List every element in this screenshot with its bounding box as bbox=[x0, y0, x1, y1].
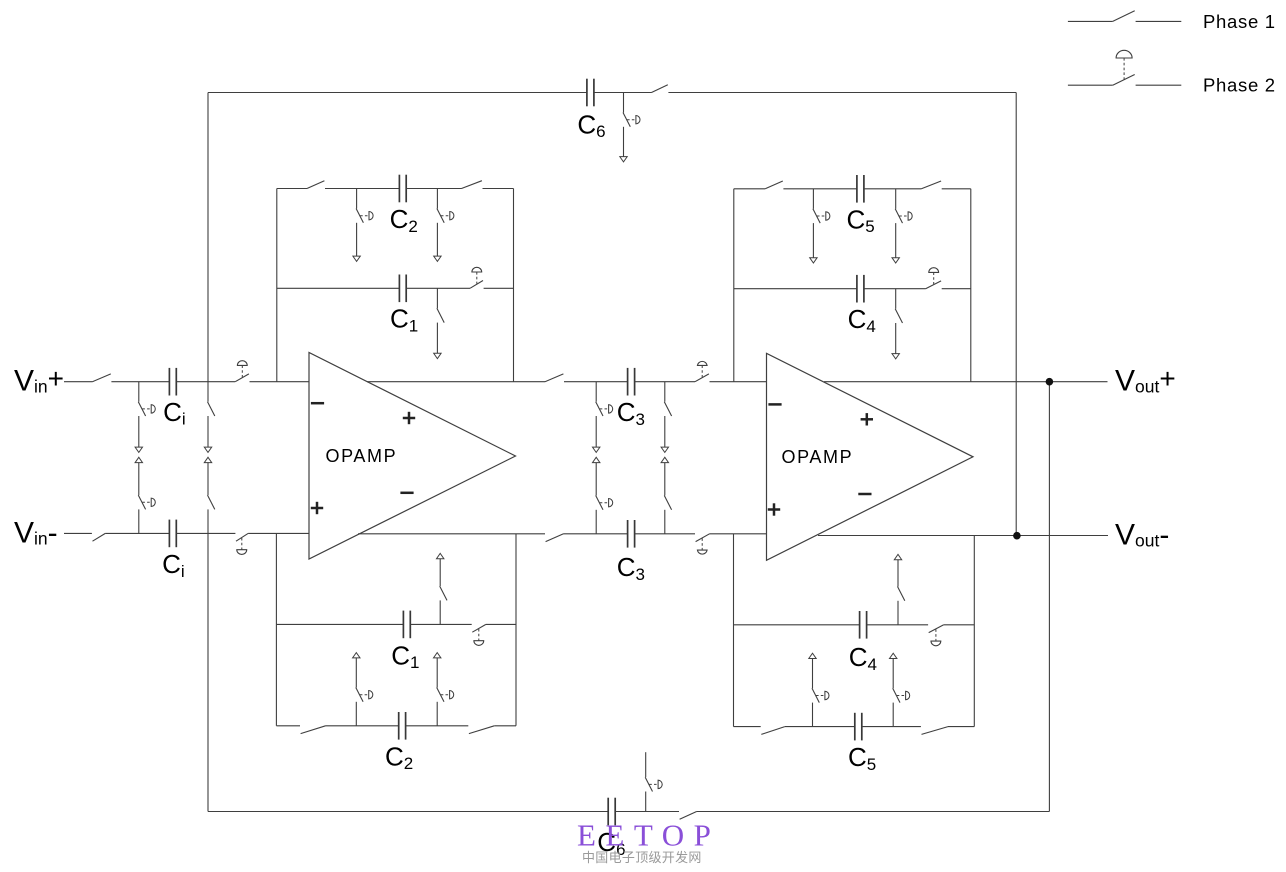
capacitor C5 bottom bbox=[855, 713, 862, 741]
svg-text:中国电子顶级开发网: 中国电子顶级开发网 bbox=[582, 850, 702, 865]
svg-text:EETOP: EETOP bbox=[577, 818, 720, 853]
wire C4 bottom row right bbox=[944, 624, 975, 626]
wire C5 top row right bbox=[942, 188, 971, 190]
wire Ci to opamp U1 non-inverting input bbox=[176, 532, 235, 534]
switch phase1 Vin+ input bbox=[92, 374, 110, 382]
switch phase1 left vertical upper with down arrow bbox=[204, 382, 215, 453]
wire top C6 net middle segment bbox=[594, 92, 652, 94]
wire to C3 bottom bbox=[564, 533, 628, 535]
wire C5 bottom row left bbox=[734, 726, 761, 728]
label C4 bottom bbox=[849, 642, 877, 674]
switch phase2 C1 bottom row right bbox=[472, 624, 486, 645]
wire bottom-left block left edge bbox=[275, 533, 277, 725]
capacitor Ci top bbox=[169, 368, 176, 396]
wire C2 top row mid-left bbox=[325, 188, 400, 190]
label C5 bottom bbox=[848, 742, 876, 774]
legend label Phase 1 bbox=[1203, 11, 1276, 32]
switch phase1 below C4 top with down arrow bbox=[892, 289, 903, 359]
wire bottom C6 net left segment bbox=[208, 811, 608, 813]
switch phase2 right of C5 top with down arrow bbox=[892, 189, 912, 263]
switch phase2 left of C2 top with down arrow bbox=[353, 189, 373, 262]
switch phase1 bottom C6 bbox=[680, 812, 697, 820]
wire C2 bottom row right bbox=[494, 725, 516, 727]
wire top C6 net left segment bbox=[208, 92, 587, 94]
wire into U2 inverting input bbox=[710, 381, 767, 383]
switch phase2 left of C5 top with down arrow bbox=[810, 189, 830, 263]
switch phase2 right of C5 bottom with up arrow bbox=[890, 653, 910, 726]
switch phase1 C2 bottom row left bbox=[301, 726, 326, 734]
node label Vout- bbox=[1115, 518, 1169, 551]
svg-text:Phase 2: Phase 2 bbox=[1203, 75, 1276, 96]
capacitor C4 top bbox=[857, 275, 864, 303]
op-amp U2 positive output sign bbox=[861, 413, 873, 425]
switch phase1 below C1 top with down arrow bbox=[434, 288, 445, 358]
switch phase2 right of C2 top with down arrow bbox=[434, 189, 454, 262]
capacitor C3 top bbox=[628, 368, 635, 396]
junction dot Vout- node bbox=[1013, 532, 1021, 540]
op-amp U2 inverting input sign bbox=[768, 403, 781, 406]
watermark EETOP bbox=[577, 818, 720, 853]
wire C1 top row mid bbox=[406, 287, 470, 289]
label Ci top bbox=[163, 397, 186, 429]
switch phase2 C4 bottom row right bbox=[929, 625, 944, 646]
wire C3 bottom to U2 non-inverting input bbox=[635, 533, 696, 535]
wire C5 bottom row mid-right bbox=[862, 726, 921, 728]
switch phase1 top C6 bbox=[652, 85, 668, 93]
wire Vin+ to Ci bbox=[111, 381, 169, 383]
switch phase1 above C1 bottom with up arrow bbox=[437, 553, 448, 624]
wire bottom-right block left edge bbox=[733, 534, 735, 727]
switch phase1 Vin- input bbox=[93, 533, 106, 541]
wire C1 bottom row mid bbox=[410, 623, 471, 625]
wire C5 top row mid-right bbox=[864, 188, 922, 190]
wire top-right block right edge bbox=[970, 189, 972, 382]
svg-text:Phase 1: Phase 1 bbox=[1203, 11, 1276, 32]
op-amp U2 negative output sign bbox=[858, 493, 871, 496]
op-amp U2 non-inverting input sign bbox=[768, 503, 780, 515]
wire C2 bottom row mid-left bbox=[326, 725, 399, 727]
switch phase2 on U1 inverting input wire bbox=[235, 361, 249, 382]
switch phase2 C4 top row right bbox=[926, 268, 942, 289]
wire to C3 top bbox=[564, 381, 628, 383]
switch phase1 C5 bottom row left bbox=[761, 727, 785, 735]
wire vertical from Vout+ node to bottom C6 bbox=[1048, 382, 1050, 812]
label C5 top bbox=[847, 204, 875, 236]
op-amp U1 non-inverting input sign bbox=[311, 502, 323, 514]
wire Ci to opamp U1 inverting input bbox=[176, 381, 235, 383]
switch phase1 on U1 output+ wire bbox=[545, 374, 563, 382]
capacitor C2 bottom bbox=[399, 712, 406, 740]
watermark chinese text bbox=[582, 850, 702, 865]
capacitor C1 bottom bbox=[403, 611, 410, 639]
wire bottom-left block right edge bbox=[515, 534, 517, 726]
op-amp U1 negative output sign bbox=[400, 492, 413, 495]
wire U1 output- to C3 bbox=[358, 533, 545, 535]
switch phase1 above C4 bottom with up arrow bbox=[894, 554, 905, 624]
legend phase 1 switch bbox=[1068, 11, 1181, 22]
op-amp U2 bbox=[767, 353, 974, 560]
legend label Phase 2 bbox=[1203, 75, 1276, 96]
op-amp U1 positive output sign bbox=[403, 412, 415, 424]
wire bottom C6 net right segment bbox=[697, 811, 1050, 813]
capacitor C2 top bbox=[399, 175, 406, 203]
legend phase 2 switch bbox=[1068, 50, 1181, 85]
wire C4 bottom row mid bbox=[867, 624, 929, 626]
switch phase2 Vin- node with up arrow bbox=[135, 457, 155, 533]
label C6 top bbox=[577, 109, 605, 141]
switch phase2 on U2 non-inverting input wire bbox=[696, 534, 710, 554]
switch phase2 riser on bottom C6 node bbox=[645, 752, 662, 811]
node label Vin+ bbox=[14, 363, 64, 398]
svg-text:OPAMP: OPAMP bbox=[782, 447, 854, 467]
wire into U1 inverting input bbox=[250, 381, 310, 383]
wire C1 top row right bbox=[484, 287, 514, 289]
capacitor C6 bottom bbox=[608, 798, 615, 826]
switch phase1 on U1 output- wire bbox=[546, 534, 564, 542]
wire left vertical feedback bbox=[207, 93, 209, 382]
wire C4 top row mid bbox=[864, 288, 926, 290]
switch phase1 C2 top row right bbox=[462, 181, 482, 189]
label C1 top bbox=[390, 304, 418, 336]
capacitor C4 bottom bbox=[860, 611, 867, 639]
wire C5 top row left bbox=[734, 188, 765, 190]
wire into U2 non-inverting input bbox=[710, 533, 767, 535]
capacitor C6 top bbox=[587, 79, 594, 107]
label C6 bottom bbox=[597, 827, 625, 859]
wire bottom C6 net middle segment bbox=[615, 811, 679, 813]
op-amp U1 bbox=[309, 353, 516, 560]
wire C2 bottom row mid-right bbox=[406, 725, 469, 727]
wire top-left block left edge bbox=[276, 189, 278, 382]
wire U2 output- to Vout- bbox=[818, 535, 1108, 537]
wire Vin- to Ci bbox=[105, 532, 169, 534]
switch phase2 right of C2 bottom with up arrow bbox=[434, 653, 454, 726]
node label Vin- bbox=[14, 516, 58, 549]
wire U1 output+ to C3 bbox=[367, 381, 545, 383]
wire right vertical from top C6 to Vout- node bbox=[1015, 93, 1017, 536]
wire C4 top row right bbox=[942, 288, 971, 290]
switch phase2 on U2 inverting input wire bbox=[695, 361, 709, 381]
wire top C6 net right segment bbox=[668, 92, 1016, 94]
switch phase2 with ground arrow on top C6 node bbox=[620, 93, 640, 162]
wire C1 top row left bbox=[277, 287, 400, 289]
label C3 bottom bbox=[617, 552, 645, 584]
svg-text:OPAMP: OPAMP bbox=[326, 446, 398, 466]
capacitor C5 top bbox=[857, 175, 864, 203]
label C2 top bbox=[390, 204, 418, 236]
switch phase1 right C3 node with down arrow bbox=[661, 382, 672, 453]
node label Vout+ bbox=[1115, 363, 1176, 398]
switch phase1 C2 top row left bbox=[307, 181, 324, 189]
switch phase2 C1 top row right bbox=[470, 267, 483, 288]
wire C2 bottom row left bbox=[276, 725, 300, 727]
wire U2 output+ to Vout+ bbox=[824, 381, 1108, 383]
wire C1 bottom row left bbox=[276, 623, 403, 625]
label C3 top bbox=[617, 397, 645, 429]
label Ci bottom bbox=[162, 549, 185, 581]
wire top-left block right edge bbox=[513, 189, 515, 382]
switch phase2 left C3 node with down arrow bbox=[593, 382, 613, 453]
wire Vin+ input bbox=[64, 381, 92, 383]
wire C3 top to U2 inverting input bbox=[635, 381, 696, 383]
switch phase1 C2 bottom row right bbox=[469, 726, 494, 734]
wire Vin- input bbox=[64, 532, 92, 534]
capacitor C3 bottom bbox=[628, 520, 635, 548]
wire C5 bottom row mid-left bbox=[785, 726, 855, 728]
switch phase1 left vertical lower with up arrow bbox=[204, 457, 215, 533]
junction dot Vout+ node bbox=[1046, 378, 1054, 386]
switch phase1 C5 bottom row right bbox=[922, 727, 949, 735]
switch phase2 left of C2 bottom with up arrow bbox=[353, 653, 373, 726]
op-amp U1 inverting input sign bbox=[311, 402, 324, 405]
switch phase2 on U1 non-inverting input wire bbox=[236, 533, 248, 554]
label C2 bottom bbox=[385, 741, 413, 773]
label C4 top bbox=[848, 304, 876, 336]
wire left vertical lower segment bbox=[207, 533, 209, 811]
switch phase2 Vin+ node with down arrow bbox=[135, 382, 155, 453]
wire C4 top row left bbox=[734, 288, 858, 290]
switch phase2 left C3 bottom node with up arrow bbox=[593, 457, 613, 534]
wire C5 bottom row right bbox=[948, 726, 974, 728]
label C1 bottom bbox=[391, 640, 419, 672]
switch phase1 C5 top row left bbox=[765, 181, 783, 189]
wire C2 top row right bbox=[483, 188, 514, 190]
wire top-right block left edge bbox=[733, 189, 735, 382]
switch phase1 right C3 bottom node with up arrow bbox=[661, 457, 672, 534]
wire C2 top row left bbox=[277, 188, 307, 190]
capacitor C1 top bbox=[399, 275, 406, 303]
switch phase2 left of C5 bottom with up arrow bbox=[809, 653, 829, 726]
wire C5 top row mid-left bbox=[783, 188, 857, 190]
capacitor Ci bottom bbox=[169, 520, 176, 548]
switch phase1 C5 top row right bbox=[921, 181, 941, 189]
wire C1 bottom row right bbox=[486, 623, 516, 625]
wire C4 bottom row left bbox=[734, 624, 860, 626]
wire into U1 non-inverting input bbox=[248, 532, 309, 534]
wire C2 top row mid-right bbox=[406, 188, 461, 190]
wire bottom-right block right edge bbox=[973, 536, 975, 727]
